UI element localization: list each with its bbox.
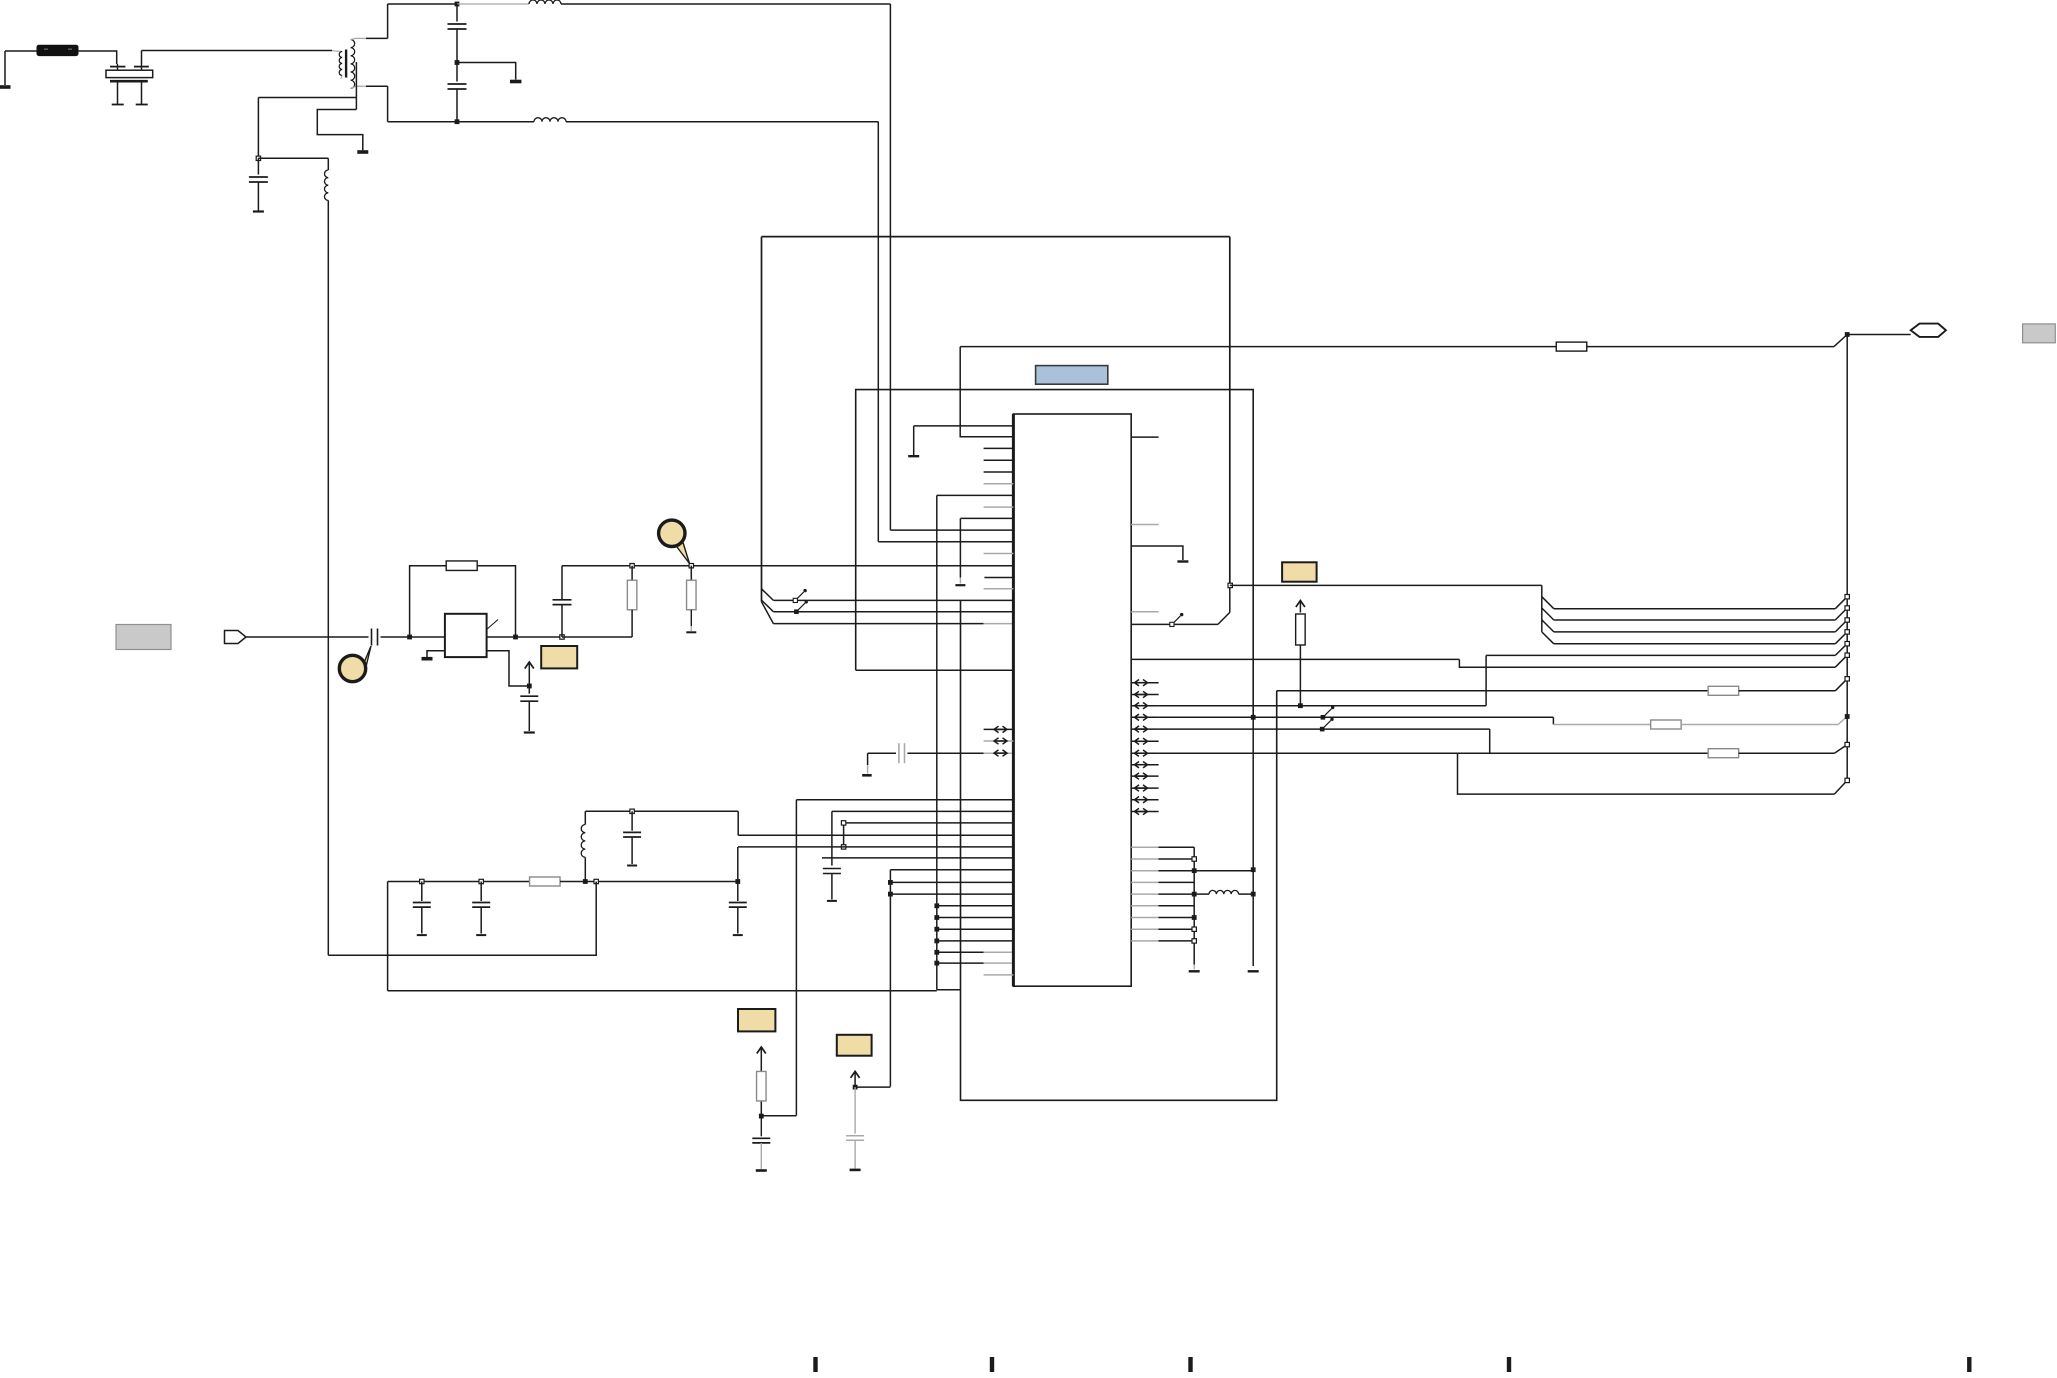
- SAW filter / crystal X1: [110, 66, 125, 68]
- wire left column to pin: [937, 494, 1012, 496]
- inductor L4: [534, 118, 566, 122]
- net frame 2 left/top/right: [856, 390, 1253, 718]
- IC left pin stubs: [984, 447, 1014, 449]
- wire input: [246, 636, 369, 638]
- mixer ground pin: [427, 651, 445, 657]
- node junction A: [407, 635, 412, 640]
- wire inductor top link: [585, 810, 738, 812]
- resistor R9: [1651, 720, 1682, 729]
- bus wire 3: [773, 623, 983, 625]
- wire 753 resistor: [1708, 749, 1739, 758]
- wire: [258, 157, 328, 159]
- wire cap branch 811: [832, 810, 1012, 812]
- wire: [141, 51, 143, 65]
- wire to connector: [1847, 334, 1911, 336]
- wire 794 from riser: [1458, 753, 1835, 794]
- IC right pin wire 659: [1131, 658, 1459, 660]
- bus entry chamfer 2: [762, 600, 774, 612]
- wire 753 to right: [1159, 752, 1709, 754]
- fan line 3: [1542, 620, 1554, 632]
- column bottom jog: [937, 989, 961, 991]
- bus entry chamfer 1: [762, 589, 774, 601]
- chamfer to frame1 right: [1218, 612, 1230, 624]
- wire frame3 to resistor row: [1277, 690, 1709, 692]
- spine taps: [1845, 595, 1849, 599]
- wire 729 to right with switch: [1159, 728, 1490, 730]
- wire 717 to right with switch: [1159, 716, 1554, 718]
- wire 706 to right: [1159, 705, 1487, 707]
- node junction B: [513, 635, 518, 640]
- node junction: [527, 684, 532, 689]
- supply arrow: [528, 663, 530, 686]
- gray label box right: [2023, 324, 2056, 343]
- transformer T1 primary: [332, 50, 342, 53]
- mixer flag: [487, 620, 498, 630]
- capacitor C12 vertical: [561, 605, 563, 637]
- wire vertical to IC pin row: [877, 122, 879, 542]
- blue label box: [1036, 366, 1108, 385]
- wire secondary bottom to bottom rail: [356, 85, 366, 87]
- IC left pin wire NC bar: [914, 425, 1012, 427]
- capacitor C2: [456, 63, 458, 82]
- IC right pin stub: [1131, 436, 1158, 438]
- node junction: [1298, 703, 1303, 708]
- capacitor C5 to ground: [257, 158, 259, 174]
- bus wire 2: [773, 611, 1012, 613]
- wire bottom rail: [388, 121, 457, 123]
- ground: [510, 80, 522, 84]
- balloon note 1: [357, 646, 372, 681]
- fan line 1: [1542, 597, 1554, 609]
- junctions on rail: [420, 879, 424, 883]
- transformer T1 core: [345, 50, 347, 78]
- wire from bottom-left network: [388, 990, 937, 992]
- gray pin stub: [984, 974, 1014, 976]
- jog down: [737, 811, 739, 835]
- capacitor C10 series: [371, 629, 373, 646]
- long wire to connector: [960, 346, 1556, 348]
- mixer output bottom pin to supply node: [487, 651, 529, 686]
- node junction: [455, 2, 460, 7]
- label box yellow 3: [837, 1035, 872, 1056]
- capacitor C24: [760, 1116, 762, 1136]
- inductor L5: [1194, 893, 1209, 895]
- wire from left vertical: [328, 882, 596, 956]
- wire 706 corner up: [1485, 655, 1487, 705]
- resistor R7: [1708, 686, 1739, 695]
- capacitor C22: [480, 882, 482, 902]
- long wire y585: [1230, 584, 1542, 586]
- IC right bidir pins: [1131, 682, 1158, 684]
- mixer U2 box: [445, 614, 487, 657]
- wire to riser: [761, 1115, 796, 1117]
- IC left bidir pins: [984, 728, 1014, 730]
- bus spine right: [1846, 335, 1848, 781]
- capacitor C20: [631, 811, 633, 830]
- net frame 2 right edge end junction: [1252, 717, 1254, 869]
- IC right pin gray: [1131, 524, 1158, 526]
- node junction: [455, 119, 460, 124]
- wire to long riser: [855, 1086, 890, 1088]
- series capacitor C13 into IC: [868, 752, 896, 754]
- wire: [410, 636, 445, 638]
- resistor R2: [690, 566, 692, 581]
- antenna ground: [4, 51, 6, 85]
- wire: [562, 636, 632, 638]
- wire rail riser to IC row: [737, 847, 739, 882]
- bus entry chamfer 3: [762, 602, 774, 624]
- net connector tag: [1911, 324, 1946, 337]
- node junction: [853, 1085, 858, 1090]
- node junction: [455, 60, 460, 65]
- capacitor C23: [737, 882, 739, 902]
- wire 823: [844, 822, 1012, 824]
- wire secondary top to top rail: [356, 37, 366, 39]
- diag up: [1834, 335, 1847, 347]
- node junction: [256, 156, 260, 160]
- label box yellow 2: [738, 1009, 775, 1031]
- resistor R5: [530, 877, 561, 886]
- wire to ground: [457, 63, 516, 80]
- fold tick marks: [813, 1357, 817, 1372]
- resistor R1: [631, 566, 633, 581]
- wire: [381, 636, 410, 638]
- main LC rail: [388, 881, 530, 883]
- bus fan column: [1541, 585, 1543, 632]
- IC right pin wires to columns: [1131, 846, 1158, 848]
- net frame 1 left: [761, 237, 763, 602]
- left corner down: [387, 882, 389, 991]
- wire from top-right loop: [960, 347, 1012, 437]
- node junction: [1228, 583, 1232, 587]
- node junction: [689, 564, 693, 568]
- capacitor C25 gray: [854, 1087, 856, 1134]
- IC right pin gray: [1131, 611, 1158, 613]
- label box yellow 1: [541, 646, 577, 668]
- transformer T1 secondary: [351, 40, 355, 89]
- supply arrow 3: [854, 1072, 856, 1087]
- wire 835 from jog: [738, 834, 1012, 836]
- wire right vertical from top rail: [889, 4, 891, 530]
- wire to IC (mixer out): [562, 565, 1012, 567]
- wire long left vertical: [327, 200, 329, 955]
- wire column to pin: [960, 517, 1012, 519]
- wire: [5, 50, 37, 52]
- switch S1: [793, 598, 797, 602]
- wire frame2 to IC: [856, 669, 1012, 671]
- column x937 branch wires: [937, 905, 1012, 907]
- fan line 4: [1542, 632, 1554, 644]
- net frame 1 top: [762, 236, 1230, 238]
- node junction: [630, 564, 634, 568]
- IC right pin wire to bar: [1131, 546, 1183, 560]
- resistor R10 on long wire: [1556, 342, 1587, 351]
- inductor L2 vertical: [327, 158, 329, 170]
- inductor L3: [457, 3, 529, 5]
- wire 858: [822, 857, 1012, 859]
- supply arrow 2: [760, 1048, 762, 1116]
- node junction C: [560, 635, 564, 639]
- ferrite bead / fuse F1 (black body): [37, 45, 78, 55]
- balloon note 2: [676, 542, 690, 564]
- IC left pin stub gray: [984, 553, 1014, 555]
- wire 729 corner down: [1489, 729, 1491, 753]
- wire to right column: [1194, 870, 1253, 872]
- net frame 3: [961, 600, 1277, 1100]
- wire: [78, 51, 117, 64]
- wire 717 staircase to gray resistor line: [1552, 717, 1554, 724]
- bus wire 1: [773, 599, 1012, 601]
- diag to bus column: [1835, 679, 1847, 691]
- wire tap to ground: [317, 110, 363, 151]
- label box yellow 4: [1282, 562, 1317, 581]
- IC left pin stub gray: [984, 506, 1014, 508]
- input pin P1: [225, 631, 247, 644]
- switch S2: [794, 609, 799, 614]
- wire vertical branch to IC: [890, 529, 1012, 531]
- wire top rail: [388, 3, 457, 5]
- node junction: [759, 1114, 764, 1119]
- left riser from bottom supply: [889, 870, 891, 1087]
- capacitor C21: [421, 882, 423, 902]
- IC U1 body: [1013, 414, 1131, 986]
- resistor R8: [1296, 614, 1306, 645]
- net frame 1 right: [1229, 237, 1231, 586]
- wire: [257, 98, 259, 159]
- fan line 2: [1542, 608, 1554, 620]
- left column wires to IC: [890, 869, 1012, 871]
- wire 847: [738, 846, 1012, 848]
- column to bar: [1252, 870, 1254, 966]
- inductor L6 vertical: [584, 811, 586, 824]
- wire from bottom left riser: [796, 799, 1012, 801]
- feedback resistor R3 loop: [410, 566, 447, 637]
- wire center tap: [355, 62, 357, 110]
- wire 659 jog: [1459, 659, 1835, 667]
- IC left pin stub: [984, 577, 1013, 579]
- ground: [357, 150, 368, 154]
- capacitor C11: [528, 686, 530, 694]
- capacitor C1: [456, 4, 458, 22]
- gray label box: [116, 625, 171, 650]
- node junction: [630, 809, 634, 813]
- resistor R6: [757, 1071, 767, 1101]
- bus wire 3 right of IC with switch: [1131, 623, 1218, 625]
- wire 655 to fan column: [1486, 654, 1835, 656]
- supply arrow 4: [1299, 602, 1301, 613]
